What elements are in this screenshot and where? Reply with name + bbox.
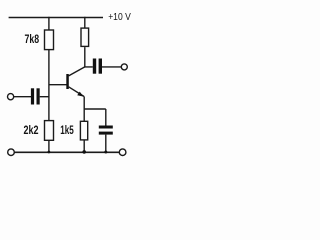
wire: emitter down to emitter node: [84, 96, 106, 109]
wire: R4 bottom to ground rail: [83, 140, 85, 152]
resistor R3 collector load: [81, 28, 89, 46]
wire: C1 to bias node: [40, 96, 49, 98]
wire: R3 bottom to collector node: [85, 47, 93, 67]
junction: R4 to rail: [82, 150, 86, 154]
wire: bottom ground rail: [14, 151, 119, 153]
transistor Q1 collector lead: [69, 67, 85, 76]
wire: C2 to output terminal: [102, 66, 121, 68]
wire: +10V supply top rail: [9, 17, 103, 19]
wire: emitter node to R4 top: [83, 109, 85, 121]
svg-text:7k8: 7k8: [25, 34, 40, 46]
svg-text:1k5: 1k5: [60, 125, 74, 137]
terminal: bottom right: [119, 149, 126, 156]
wire: rail to R1 top: [48, 17, 50, 30]
wire: rail to R3 top: [84, 17, 86, 28]
terminal: bottom left: [8, 149, 15, 156]
junction: R2 to rail: [48, 151, 51, 154]
resistor R4 1k5: [80, 121, 87, 140]
transistor Q1 base bar: [66, 74, 69, 89]
wire: base wire from bias node to Q1 base: [49, 84, 67, 86]
terminal: output: [121, 64, 127, 70]
wire: R1 bottom to R2 top (bias node): [48, 50, 50, 121]
wire: input terminal to C1: [14, 96, 31, 98]
capacitor C2 output coupling: [93, 59, 102, 74]
svg-text:2k2: 2k2: [24, 125, 39, 137]
terminal: input: [8, 94, 14, 100]
junction: C3 to rail: [104, 151, 107, 154]
resistor R1 7k8: [45, 30, 54, 50]
capacitor C1 input coupling: [31, 88, 40, 104]
resistor R2 2k2: [45, 121, 54, 141]
capacitor C3 emitter bypass: [99, 126, 113, 135]
wire: R2 bottom to ground rail: [48, 140, 50, 152]
transistor Q1 emitter lead with arrow: [69, 87, 84, 97]
svg-text:+10 V: +10 V: [108, 11, 131, 23]
wire: C3 bottom to ground rail: [105, 135, 107, 153]
wire: emitter node down to C3: [105, 109, 107, 126]
